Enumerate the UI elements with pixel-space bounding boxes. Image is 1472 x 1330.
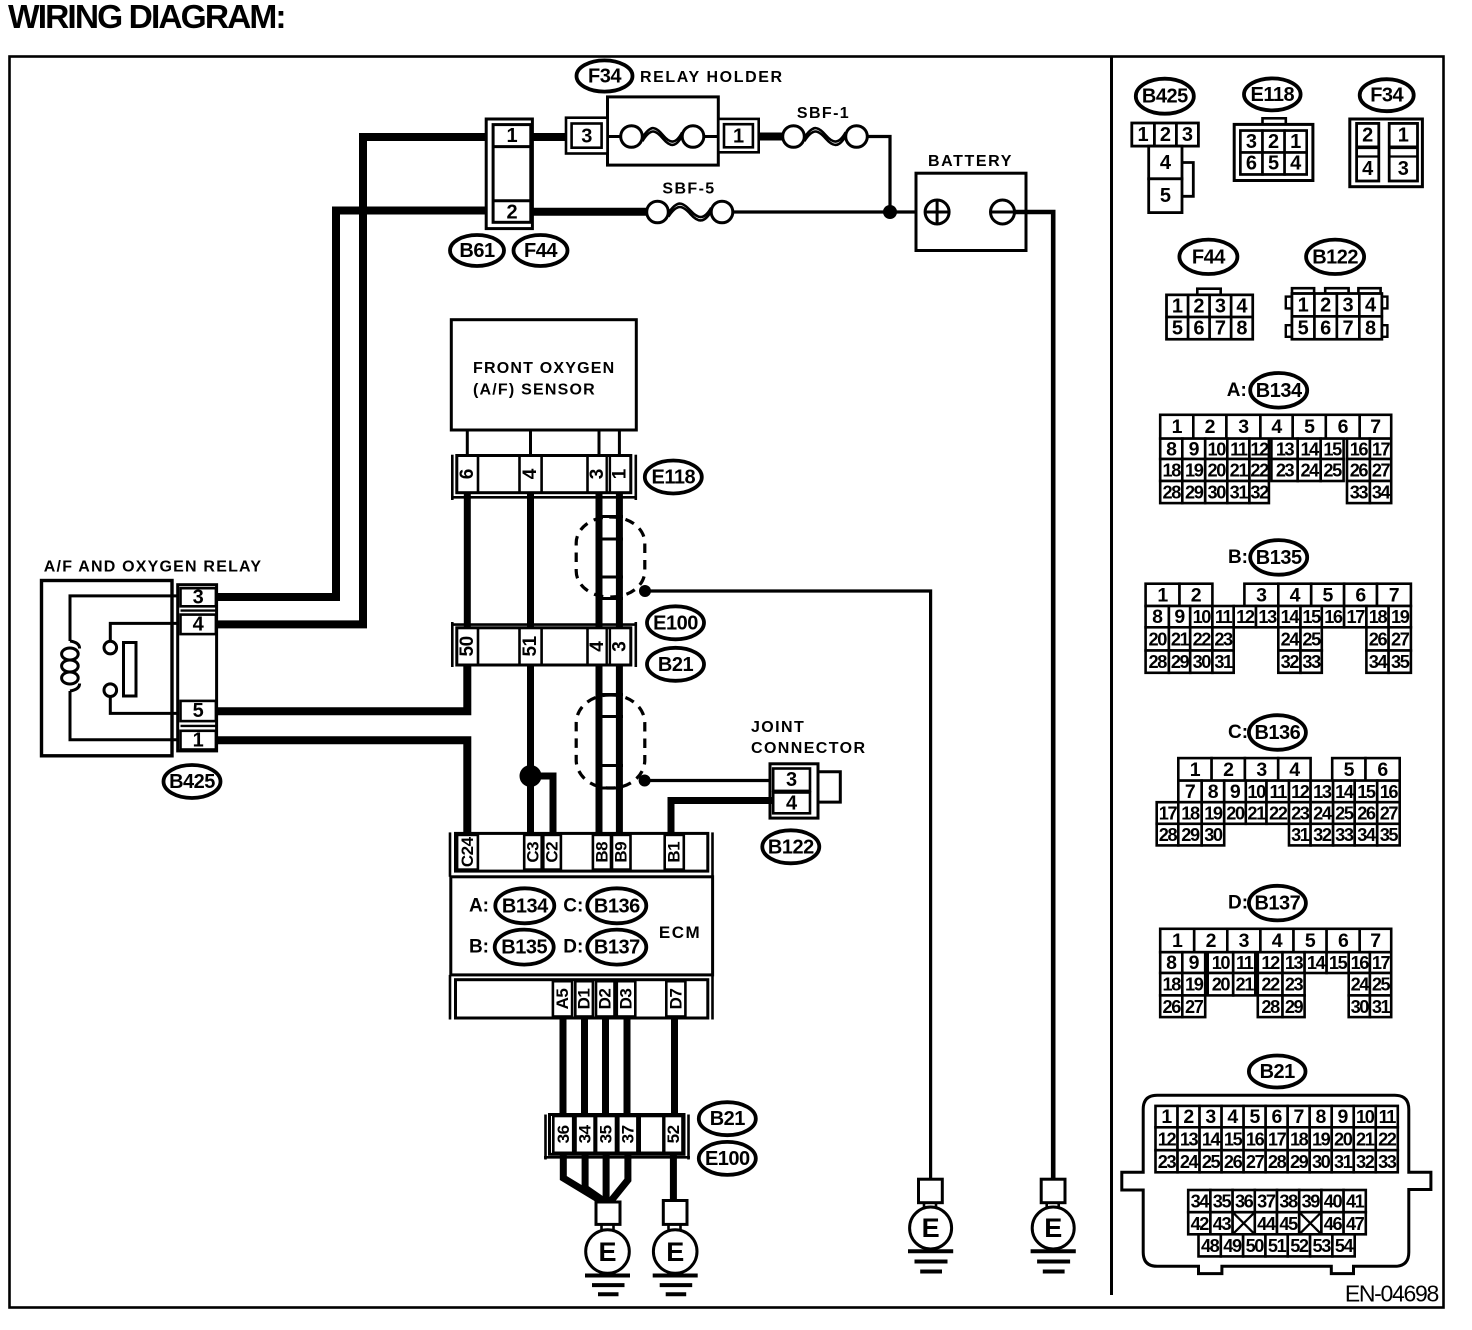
svg-text:5: 5	[193, 700, 204, 722]
svg-text:36: 36	[1235, 1192, 1254, 1212]
junction dot battery feed	[883, 205, 897, 219]
svg-text:17: 17	[1268, 1129, 1287, 1149]
bottom strip pin 37	[618, 1116, 637, 1153]
svg-text:34: 34	[1191, 1192, 1211, 1212]
oval F34	[577, 60, 633, 91]
svg-text:27: 27	[1185, 997, 1204, 1017]
svg-text:B425: B425	[1142, 86, 1188, 108]
ECM pin B9 cell	[612, 835, 631, 870]
svg-text:24: 24	[1300, 461, 1320, 481]
relay contact top	[104, 641, 117, 654]
ground E3 circle	[910, 1207, 952, 1249]
svg-text:11: 11	[1379, 1107, 1397, 1127]
fuse SBF-1	[804, 128, 845, 141]
svg-text:SBF-1: SBF-1	[797, 105, 850, 122]
svg-text:3: 3	[1215, 295, 1226, 317]
svg-text:36: 36	[554, 1125, 573, 1143]
svg-text:15: 15	[1323, 439, 1342, 459]
svg-text:3: 3	[1238, 416, 1249, 438]
svg-text:3: 3	[1239, 930, 1250, 952]
relay holder tab 3 outer	[566, 118, 608, 154]
wire branch to ECM C2	[531, 776, 554, 833]
svg-text:B135: B135	[501, 937, 547, 959]
svg-text:4: 4	[193, 614, 205, 636]
svg-text:1: 1	[610, 468, 631, 479]
relay holder tab 3 inner	[572, 124, 602, 148]
joint connector pin 3	[773, 769, 810, 791]
svg-text:F34: F34	[1370, 85, 1404, 107]
svg-text:15: 15	[1302, 607, 1321, 627]
svg-text:34: 34	[576, 1124, 595, 1143]
svg-text:B:: B:	[1228, 547, 1248, 568]
bottom strip pin 35	[596, 1116, 616, 1153]
svg-text:18: 18	[1163, 975, 1182, 995]
svg-text:26: 26	[1369, 629, 1388, 649]
oval B61	[450, 235, 504, 266]
svg-text:2: 2	[506, 201, 517, 223]
svg-text:12: 12	[1291, 782, 1310, 802]
svg-text:29: 29	[1290, 1152, 1309, 1172]
ECM pin C2 cell	[543, 835, 561, 870]
svg-text:22: 22	[1193, 629, 1212, 649]
svg-text:31: 31	[1372, 997, 1391, 1017]
ground E3 neck	[923, 1203, 926, 1208]
svg-text:27: 27	[1391, 629, 1410, 649]
svg-text:14: 14	[1300, 439, 1320, 459]
svg-text:B1: B1	[665, 842, 684, 863]
svg-text:1: 1	[1172, 930, 1183, 952]
svg-text:51: 51	[520, 635, 541, 656]
svg-text:21: 21	[1236, 975, 1255, 995]
E100/B21 strip box	[457, 628, 631, 665]
svg-text:13: 13	[1285, 953, 1304, 973]
svg-text:10: 10	[1356, 1107, 1375, 1127]
wire B61/F44 pin1 to relay holder	[531, 133, 566, 141]
wire battery - to ground E	[1015, 212, 1054, 1179]
svg-text:E: E	[666, 1237, 684, 1267]
svg-text:D:: D:	[1228, 893, 1248, 914]
svg-text:E118: E118	[651, 467, 695, 489]
oval F44	[514, 235, 568, 266]
svg-text:A:: A:	[1227, 380, 1247, 401]
oval B122 (panel)	[1306, 240, 1364, 274]
svg-text:1: 1	[1398, 124, 1409, 146]
svg-text:3: 3	[610, 641, 631, 652]
svg-text:8: 8	[1365, 317, 1376, 339]
svg-text:30: 30	[1208, 483, 1227, 503]
svg-text:25: 25	[1202, 1152, 1221, 1172]
svg-text:3: 3	[1246, 131, 1257, 153]
bottom strip pin 34	[576, 1116, 595, 1153]
svg-text:1: 1	[1138, 124, 1149, 146]
wire SBF-1 to junction	[867, 137, 890, 213]
svg-text:44: 44	[1257, 1214, 1277, 1234]
svg-text:38: 38	[1279, 1192, 1298, 1212]
svg-text:C2: C2	[543, 842, 562, 863]
wire B61/F44 pin2 to SBF-5	[531, 208, 647, 216]
svg-text:33: 33	[1350, 483, 1369, 503]
oval E118 (panel)	[1244, 78, 1301, 110]
wire pin3 to ECM B9 (shielded)	[616, 665, 623, 833]
svg-text:1: 1	[1190, 759, 1201, 781]
svg-text:8: 8	[1236, 318, 1247, 340]
svg-text:5: 5	[1298, 317, 1309, 339]
svg-text:E: E	[922, 1213, 940, 1243]
wire shield 1 to ground E	[645, 591, 931, 1179]
wire pin4 to pin51	[527, 493, 534, 628]
F34 panel right column	[1389, 123, 1417, 181]
B425 panel side tab	[1182, 163, 1193, 197]
ECM pin B8 cell	[593, 835, 611, 870]
svg-text:4: 4	[1236, 295, 1248, 317]
oval E118 (schematic)	[645, 461, 702, 494]
svg-text:SBF-5: SBF-5	[662, 181, 715, 198]
ECM pin D1 cell	[575, 981, 593, 1016]
svg-text:32: 32	[1356, 1152, 1375, 1172]
svg-text:2: 2	[1183, 1106, 1194, 1128]
wire relay pin5 to strip pin50	[217, 665, 468, 711]
ground terminal 3	[919, 1179, 943, 1203]
svg-text:25: 25	[1372, 975, 1391, 995]
svg-text:B135: B135	[1256, 547, 1302, 569]
svg-text:16: 16	[1351, 953, 1370, 973]
B122 panel grid	[1292, 294, 1382, 340]
svg-text:4: 4	[1160, 152, 1172, 174]
ground terminal 4	[1041, 1179, 1065, 1203]
fuse inside relay holder	[642, 128, 682, 141]
F44 panel grid	[1167, 295, 1253, 339]
svg-text:6: 6	[1377, 759, 1388, 781]
svg-text:48: 48	[1201, 1236, 1220, 1256]
svg-text:B21: B21	[710, 1108, 746, 1130]
B21 panel upper grid	[1156, 1106, 1178, 1127]
svg-text:4: 4	[587, 641, 608, 652]
svg-text:23: 23	[1291, 804, 1310, 824]
svg-text:11: 11	[1270, 782, 1288, 802]
svg-text:26: 26	[1357, 804, 1376, 824]
svg-text:21: 21	[1171, 629, 1190, 649]
svg-text:51: 51	[1268, 1236, 1287, 1256]
svg-text:B122: B122	[768, 836, 814, 858]
battery box	[916, 173, 1026, 250]
A/F relay pin 5 cell	[181, 701, 216, 721]
svg-text:29: 29	[1285, 997, 1304, 1017]
svg-text:18: 18	[1290, 1129, 1309, 1149]
svg-text:8: 8	[1152, 606, 1163, 628]
svg-text:5: 5	[1160, 185, 1171, 207]
svg-text:10: 10	[1247, 782, 1266, 802]
wire D2 to 35	[602, 1018, 609, 1115]
svg-text:1: 1	[506, 125, 517, 147]
bottom strip blank cell	[640, 1116, 664, 1153]
ECM pin B1 cell	[665, 835, 684, 870]
svg-text:27: 27	[1380, 804, 1399, 824]
ECM pin A5 cell	[553, 981, 572, 1016]
relay holder tab 1 outer	[718, 119, 758, 152]
svg-text:D2: D2	[596, 989, 615, 1010]
svg-text:20: 20	[1334, 1129, 1353, 1149]
svg-text:31: 31	[1291, 825, 1310, 845]
svg-text:EN-04698: EN-04698	[1345, 1281, 1439, 1307]
svg-text:27: 27	[1246, 1152, 1265, 1172]
svg-text:9: 9	[1230, 781, 1241, 803]
svg-text:20: 20	[1212, 975, 1231, 995]
svg-text:C3: C3	[524, 842, 543, 863]
relay holder tab 1 inner	[724, 124, 753, 147]
svg-text:CONNECTOR: CONNECTOR	[751, 740, 866, 757]
svg-text:6: 6	[1355, 584, 1366, 606]
svg-text:6: 6	[1246, 153, 1257, 175]
wire D3 to 37	[624, 1018, 631, 1115]
E118 panel top tab	[1263, 118, 1286, 124]
svg-text:12: 12	[1158, 1129, 1177, 1149]
oval B135 (panel)	[1250, 540, 1307, 575]
ground E4 neck	[1045, 1203, 1048, 1208]
svg-text:34: 34	[1369, 652, 1389, 672]
battery - terminal	[991, 200, 1015, 224]
ECM pin C24 cell	[457, 835, 478, 870]
oval B21 (panel)	[1249, 1056, 1306, 1088]
A/F relay pin 4 cell	[181, 615, 216, 635]
F34 panel outer box	[1350, 119, 1423, 187]
svg-text:37: 37	[618, 1125, 637, 1143]
svg-text:1: 1	[1290, 131, 1301, 153]
svg-text:B21: B21	[1260, 1061, 1296, 1083]
svg-text:JOINT: JOINT	[751, 719, 805, 736]
svg-text:35: 35	[597, 1125, 616, 1143]
svg-text:29: 29	[1181, 825, 1200, 845]
battery + terminal	[925, 200, 949, 224]
connector grid B B135	[1146, 584, 1180, 606]
E118 panel outer box	[1234, 124, 1313, 180]
svg-text:37: 37	[1257, 1192, 1276, 1212]
wire relay pin4 to B61/F44 pin1 (vertical x363)	[217, 137, 486, 624]
shield 2 rungs	[596, 693, 623, 696]
joint connector outer box	[770, 764, 818, 818]
wire relay holder to SBF-1	[759, 133, 783, 141]
oval B425 (schematic)	[164, 765, 221, 798]
svg-text:21: 21	[1247, 804, 1266, 824]
svg-text:7: 7	[1370, 930, 1380, 952]
wire pin51 to ECM C3	[527, 665, 534, 833]
wire pin6 to pin50	[464, 493, 471, 628]
svg-text:B9: B9	[612, 842, 631, 863]
svg-text:18: 18	[1369, 607, 1388, 627]
svg-text:6: 6	[1271, 1106, 1282, 1128]
svg-text:10: 10	[1208, 439, 1227, 459]
relay coil	[70, 641, 80, 649]
oval B425 (panel)	[1136, 79, 1194, 114]
svg-text:6: 6	[1338, 416, 1349, 438]
A/F relay pin5/1 divider	[181, 725, 216, 727]
svg-text:22: 22	[1269, 804, 1288, 824]
svg-text:24: 24	[1351, 975, 1371, 995]
svg-text:30: 30	[1193, 652, 1212, 672]
oval B136 (ECM)	[587, 888, 646, 923]
svg-text:8: 8	[1166, 952, 1177, 974]
svg-text:5: 5	[1172, 318, 1183, 340]
ground E4 bars	[1031, 1249, 1076, 1253]
svg-text:33: 33	[1335, 825, 1354, 845]
svg-text:28: 28	[1268, 1152, 1287, 1172]
svg-text:19: 19	[1185, 461, 1204, 481]
svg-text:9: 9	[1338, 1106, 1349, 1128]
relay contact bottom	[104, 684, 117, 697]
svg-text:11: 11	[1230, 439, 1248, 459]
svg-text:31: 31	[1214, 652, 1233, 672]
svg-text:2: 2	[1193, 295, 1204, 317]
wire pin3 (shielded) to pin4	[596, 493, 603, 628]
svg-text:F34: F34	[588, 66, 622, 88]
svg-text:F44: F44	[1192, 246, 1226, 268]
svg-text:35: 35	[1213, 1192, 1232, 1212]
svg-text:26: 26	[1224, 1152, 1243, 1172]
svg-text:1: 1	[733, 125, 744, 147]
svg-text:14: 14	[1281, 607, 1301, 627]
svg-text:D3: D3	[617, 989, 636, 1010]
fuse SBF-5	[668, 204, 711, 217]
svg-text:5: 5	[1268, 153, 1279, 175]
wire joint connector pin4 to ECM B1	[671, 801, 773, 834]
svg-text:1: 1	[1172, 295, 1183, 317]
svg-text:3: 3	[1398, 158, 1409, 180]
svg-text:26: 26	[1350, 461, 1369, 481]
svg-text:FRONT OXYGEN: FRONT OXYGEN	[473, 360, 615, 377]
svg-text:24: 24	[1313, 804, 1333, 824]
svg-text:54: 54	[1335, 1236, 1355, 1256]
svg-text:6: 6	[1193, 318, 1204, 340]
svg-text:47: 47	[1346, 1214, 1365, 1234]
svg-text:29: 29	[1185, 483, 1204, 503]
svg-text:3: 3	[1205, 1106, 1216, 1128]
A/F relay pin 1 cell	[181, 731, 216, 750]
svg-text:13: 13	[1258, 607, 1277, 627]
ground E1 circle	[586, 1230, 630, 1274]
svg-text:3: 3	[1182, 124, 1193, 146]
shield 1 rungs	[596, 515, 623, 518]
svg-text:16: 16	[1324, 607, 1343, 627]
wire D7 to 52	[671, 1018, 678, 1115]
svg-text:B8: B8	[592, 842, 611, 863]
svg-text:BATTERY: BATTERY	[928, 153, 1013, 170]
svg-text:E: E	[1044, 1213, 1062, 1243]
svg-text:9: 9	[1189, 952, 1200, 974]
svg-text:45: 45	[1279, 1214, 1298, 1234]
svg-text:26: 26	[1163, 997, 1182, 1017]
oval E100 (schematic)	[647, 606, 704, 639]
oval B21 (bottom strip)	[699, 1102, 756, 1135]
svg-text:14: 14	[1202, 1129, 1222, 1149]
svg-text:7: 7	[1215, 318, 1226, 340]
E118 strip bracket	[451, 455, 454, 500]
svg-text:7: 7	[1389, 584, 1399, 606]
svg-text:C24: C24	[458, 836, 477, 867]
oval B137 (ECM)	[587, 930, 646, 965]
E118 strip dividers	[477, 456, 480, 493]
svg-text:5: 5	[1322, 584, 1333, 606]
svg-text:11: 11	[1236, 953, 1254, 973]
svg-text:1: 1	[193, 729, 204, 751]
svg-text:9: 9	[1174, 606, 1185, 628]
svg-text:15: 15	[1329, 953, 1348, 973]
svg-text:10: 10	[1193, 607, 1212, 627]
svg-text:5: 5	[1305, 930, 1316, 952]
svg-text:6: 6	[1320, 317, 1331, 339]
ground E2 neck	[667, 1224, 670, 1229]
svg-text:19: 19	[1204, 804, 1223, 824]
svg-text:B136: B136	[594, 895, 640, 917]
svg-text:22: 22	[1378, 1129, 1397, 1149]
B122 panel top tabs	[1292, 288, 1314, 293]
svg-text:2: 2	[1205, 416, 1216, 438]
svg-text:34: 34	[1357, 825, 1377, 845]
svg-text:B134: B134	[502, 895, 549, 917]
svg-text:6: 6	[457, 469, 478, 480]
B61/F44 pin 1 cell	[493, 145, 531, 148]
svg-text:9: 9	[1189, 438, 1200, 460]
svg-text:4: 4	[1289, 759, 1300, 781]
svg-text:15: 15	[1357, 782, 1376, 802]
sensor pin stubs	[466, 430, 469, 456]
svg-text:16: 16	[1380, 782, 1399, 802]
svg-text:30: 30	[1204, 825, 1223, 845]
svg-text:24: 24	[1180, 1152, 1200, 1172]
svg-text:1: 1	[1157, 584, 1168, 606]
svg-text:43: 43	[1213, 1214, 1232, 1234]
svg-text:B21: B21	[658, 654, 694, 676]
B425 panel cell 5	[1149, 179, 1182, 213]
svg-text:29: 29	[1171, 652, 1190, 672]
svg-text:30: 30	[1351, 997, 1370, 1017]
svg-text:13: 13	[1313, 782, 1332, 802]
wire A5 to 36	[560, 1018, 567, 1115]
svg-text:B61: B61	[459, 240, 495, 262]
svg-text:32: 32	[1313, 825, 1332, 845]
F44 panel top tab	[1197, 289, 1220, 295]
B61/F44 pin 2 cell	[493, 199, 531, 202]
ECM pin D2 cell	[596, 981, 615, 1016]
svg-text:7: 7	[1370, 416, 1380, 438]
svg-text:C:: C:	[1228, 722, 1248, 743]
ground E1 bars	[585, 1274, 630, 1278]
joint connector right tab	[818, 772, 840, 802]
svg-text:53: 53	[1313, 1236, 1332, 1256]
svg-text:35: 35	[1380, 825, 1399, 845]
wire relay pin1 to ECM C24	[217, 740, 468, 833]
E118 panel grid	[1240, 131, 1262, 153]
svg-text:46: 46	[1324, 1214, 1343, 1234]
svg-text:20: 20	[1208, 461, 1227, 481]
svg-text:19: 19	[1391, 607, 1410, 627]
svg-text:1: 1	[1172, 416, 1183, 438]
bottom strip bracket	[544, 1115, 547, 1160]
svg-text:8: 8	[1166, 438, 1177, 460]
svg-text:20: 20	[1226, 804, 1245, 824]
svg-text:1: 1	[1161, 1106, 1172, 1128]
ground E2 bars	[653, 1274, 698, 1278]
svg-text:7: 7	[1185, 781, 1195, 803]
svg-text:18: 18	[1181, 804, 1200, 824]
connector grid A B134	[1160, 415, 1193, 439]
svg-text:2: 2	[1223, 759, 1234, 781]
svg-text:7: 7	[1343, 317, 1354, 339]
ground E4 circle	[1032, 1207, 1074, 1249]
svg-text:21: 21	[1356, 1129, 1375, 1149]
svg-text:WIRING DIAGRAM:: WIRING DIAGRAM:	[8, 0, 285, 36]
funnel wires 36/34/35/37 to ground terminal	[563, 1154, 602, 1201]
oval B134 (panel)	[1250, 373, 1307, 408]
svg-text:25: 25	[1335, 804, 1354, 824]
